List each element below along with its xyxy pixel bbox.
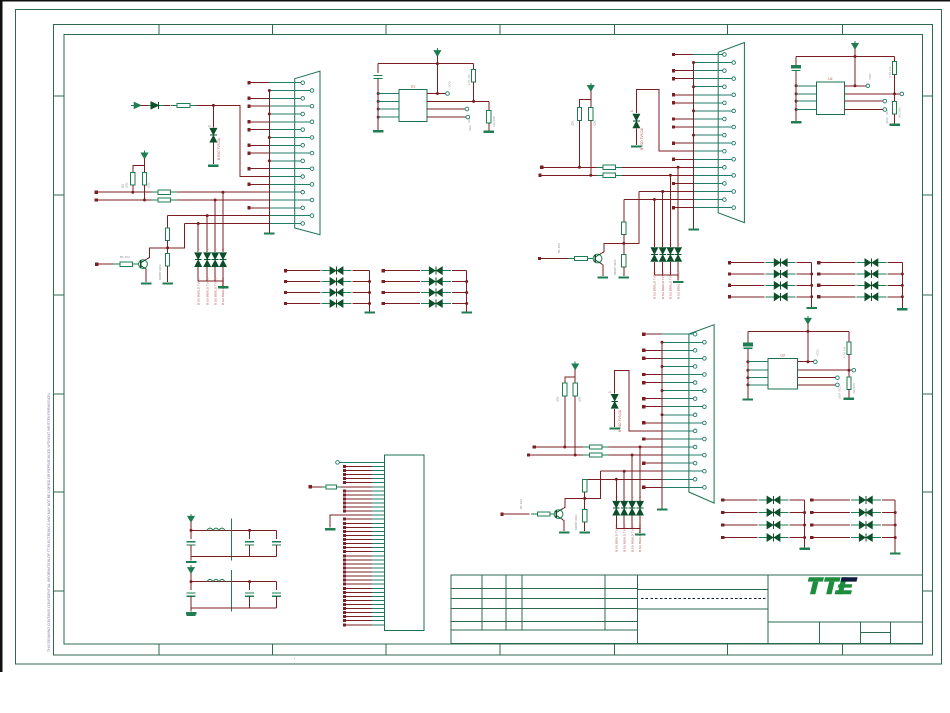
wire R22 to ground (584, 522, 586, 531)
supply arrow F2 V (188, 568, 194, 574)
capacitor F2 C2 (245, 592, 254, 594)
wire U2 R1 to pin2 (894, 74, 896, 94)
border tick right (923, 491, 933, 493)
ground X1 (264, 232, 275, 234)
wire DA2.2 left (383, 281, 420, 283)
node square X2 pin 17 (672, 182, 675, 185)
node square X2 pin 4 (672, 77, 675, 80)
wire J1 pin 9 (346, 494, 372, 496)
wire DA1 rail (369, 271, 371, 312)
junction collector/chain (583, 497, 586, 500)
wire riser to TVS quad (615, 479, 617, 501)
node square J1 pin 6 (343, 481, 346, 484)
diode D1 (148, 104, 164, 106)
wire J1 pin 6 (346, 482, 372, 484)
junction DA5 rail 4 (803, 536, 806, 539)
wire U1 left rail upper (377, 64, 379, 74)
connector J1 pin 15 (372, 518, 384, 520)
diode pair DA2 D3 (421, 292, 451, 294)
wire J1 pin 36 (346, 604, 372, 606)
wire DA2.4 left (383, 303, 420, 305)
connector X3 body (689, 325, 714, 503)
junction U2 left rail (795, 92, 798, 95)
port arrow P1 (134, 102, 141, 108)
pin U2.4 terminal (883, 108, 887, 112)
junction U3 left rail (746, 369, 749, 372)
node square X2 pin 6 (672, 93, 675, 96)
node square X2 pin 20 (672, 206, 675, 209)
wire net stub to X2 pin 1 (674, 54, 694, 56)
border tick left (53, 194, 64, 196)
node square X2 pin 7 (672, 101, 675, 104)
wire J1 pin 40 (346, 620, 372, 622)
TVS diode D4 (204, 253, 210, 259)
wire DA5 rail (804, 500, 806, 548)
node square X2 pin 3 (672, 69, 675, 72)
pin U2.2 terminal (900, 92, 904, 96)
wire net stub to X2 pin 17 (674, 182, 694, 184)
wire U1 right rail upper (473, 64, 475, 70)
junction at R1 output (212, 104, 215, 107)
ground TVS quad (218, 286, 229, 288)
connector J1 pin 20 (372, 539, 384, 541)
wire net stub to X3 pin 14 (644, 438, 662, 440)
border tick bottom (158, 644, 160, 655)
connector J1 pin 34 (372, 595, 384, 597)
svg-text:MMBT3904: MMBT3904 (574, 514, 578, 530)
border tick top (842, 25, 844, 35)
pin U2.3 terminal (883, 99, 887, 103)
connector X2 pin 20 (694, 207, 732, 209)
pin U3.2 terminal (852, 368, 856, 372)
wire U2 left rail upper (795, 57, 797, 66)
ground DA3 (806, 307, 817, 309)
junction DA1 rail 3 (368, 291, 371, 294)
node square J1 pin 2 (343, 465, 346, 468)
junction U3 left rail (746, 383, 749, 386)
wire TVS bottom (206, 267, 208, 281)
svg-text:47K: 47K (556, 395, 560, 402)
node square DA5.2 (721, 511, 724, 514)
connector J1 pin 38 (372, 612, 384, 614)
node square X3 pin 4 (642, 357, 645, 360)
transistor Q3 (554, 510, 563, 519)
wire DA1.3 left (286, 292, 321, 294)
wire IN8 row (529, 454, 663, 456)
wire net stub to X1 pin 12 (249, 168, 269, 170)
resistor R16 (563, 383, 567, 396)
connector X2 pin 10 (694, 126, 732, 128)
ground R22 (579, 531, 590, 533)
pin U2.4 wire (845, 109, 884, 111)
wire DA3 rail (811, 263, 813, 307)
wire DA1.1 left (286, 270, 321, 272)
junction U2 left rail (795, 100, 798, 103)
wire J1 pin1 (340, 461, 373, 463)
wire TVS bottom (669, 262, 671, 275)
terminal circle J1 pin1 (336, 461, 340, 465)
node square DA5.4 (721, 536, 724, 539)
wire DA3.3 right (797, 284, 812, 286)
connector X2 pin 11 (694, 134, 723, 136)
junction wire2/riser (214, 199, 217, 202)
IC U1 body (399, 89, 427, 121)
connector X3 pin 7 (662, 382, 693, 384)
title block line under logo (768, 621, 923, 623)
wire J1 pin 25 (346, 559, 372, 561)
wire riser to TVS quad (206, 216, 208, 253)
wire J1 pin 31 (346, 583, 372, 585)
connector X1 pin 2 (269, 90, 310, 92)
wire J1 pin 39 (346, 616, 372, 618)
diode pair DA2 D2 (421, 281, 451, 283)
wire U3 left rail lower (747, 349, 749, 399)
junction R2/wire1 (131, 191, 134, 194)
connector J1 pin 16 (372, 522, 384, 524)
wire chain top (623, 200, 625, 223)
node square X2 pin 10 (672, 125, 675, 128)
node square DA1.3 (284, 291, 287, 294)
TVS diode D10 (667, 248, 673, 254)
node square IN2 (95, 198, 98, 201)
svg-text:4.7K 1%: 4.7K 1% (888, 66, 892, 78)
wire DA6.4 left (812, 537, 850, 539)
connector X1 pin 11 (269, 160, 301, 162)
wire DA6.2 right (882, 512, 895, 514)
pin stub U3 left (748, 361, 768, 363)
connector J1 pin 37 (372, 608, 384, 610)
connector J1 pin 36 (372, 604, 384, 606)
junction collector/chain (166, 246, 169, 249)
connector X3 pin 19 (662, 478, 693, 480)
connector X2 pin 12 (694, 142, 732, 144)
wire net stub to X1 pin 7 (249, 129, 269, 131)
wire net stub to X2 pin 7 (674, 102, 694, 104)
wire riser to TVS quad (222, 192, 224, 252)
wire DA4.2 right (887, 273, 902, 275)
wire F1 cap2 lower (249, 545, 251, 557)
capacitor U1 C (374, 74, 383, 76)
border tick bottom (272, 644, 274, 655)
border tick right (923, 194, 933, 196)
connector J1 pin 9 (372, 494, 384, 496)
node square X3 pin 7 (642, 381, 645, 384)
wire IN9 to R20 (502, 513, 529, 515)
junction wire1/riser (222, 191, 225, 194)
junction U3 right rail (847, 369, 850, 372)
svg-text:1: 1 (208, 125, 212, 127)
border tick bottom (842, 644, 844, 655)
junction U2 right rail (893, 92, 896, 95)
wire DA6.1 left (812, 499, 850, 501)
node square X3 pin 10 (642, 405, 645, 408)
svg-text:B ESD TVS DA: B ESD TVS DA (217, 137, 221, 160)
connector X2 pin 6 (694, 94, 732, 96)
wire U1 left rail lower (377, 79, 379, 130)
pin U1.1 terminal (446, 92, 450, 96)
ground R15 (619, 276, 630, 278)
wire row3 (168, 215, 270, 217)
border tick left (53, 294, 64, 296)
connector X1 pin 1 (269, 82, 301, 84)
ground U2 left (791, 121, 802, 123)
transistor Q2 (593, 254, 602, 263)
ground TVS quad (635, 533, 646, 535)
svg-text:VDD: VDD (815, 349, 819, 356)
TVS diode D6 (220, 253, 226, 259)
connector X1 pin 17 (269, 207, 301, 209)
wire J1 pin 41 (346, 624, 372, 626)
wire net stub to X1 pin 10 (249, 152, 269, 154)
diode pair DA1 D1 (322, 270, 352, 272)
wire DA1.2 left (286, 281, 321, 283)
resistor R17 (573, 383, 577, 396)
junction R3/wire2 (143, 199, 146, 202)
junction U1 left rail (377, 116, 380, 119)
connector X2 pin 5 (694, 86, 723, 88)
connector J1 pin 7 (372, 486, 384, 488)
connector X2 pin 1 (694, 54, 723, 56)
wire J1 pin 21 (346, 543, 372, 545)
TTE logo (808, 577, 824, 581)
node square J2 input (309, 485, 312, 488)
junction wire1/riser (677, 166, 680, 169)
wire F1 cap3 vert (276, 530, 278, 538)
wire J1 pin 34 (346, 595, 372, 597)
ground F2 (186, 612, 197, 614)
wire J1 pin 5 (346, 478, 372, 480)
wire riser to TVS quad (639, 447, 641, 501)
wire TVS quad common (654, 275, 678, 280)
node square DA2.3 (382, 291, 385, 294)
junction U1 right rail (472, 100, 475, 103)
wire J1 pin14 to ground (330, 515, 372, 527)
junction X2 bus pin 11 (692, 134, 695, 137)
wire DA6.4 right (882, 537, 895, 539)
resistor R1 (171, 104, 197, 106)
wire DA2.4 right (452, 303, 467, 305)
pin U3.1 wire (797, 361, 813, 363)
node square J1 pin 21 (343, 542, 346, 545)
wire J1 pin 23 (346, 551, 372, 553)
wire DA1.3 right (353, 292, 370, 294)
wire J1 pin 18 (346, 530, 372, 532)
wire DA6.1 right (882, 499, 895, 501)
connector J1 pin 30 (372, 579, 384, 581)
junction R9/wire1 (578, 166, 581, 169)
crossing net line F2 (231, 570, 233, 612)
connector X3 pin 15 (662, 446, 693, 448)
wire DA5.4 right (790, 537, 805, 539)
ground Q2 (598, 276, 609, 278)
node square X1 pin 17 (247, 206, 250, 209)
ground U3 right (844, 398, 855, 400)
diode pair DA5 D2 (759, 512, 789, 514)
connector X3 pin 13 (662, 430, 693, 432)
wire TVS bottom (214, 267, 216, 281)
connector X2 pin 17 (694, 182, 723, 184)
node square X1 pin 12 (247, 167, 250, 170)
wire Q3 collector riser (562, 471, 601, 509)
wire DA1.4 right (353, 303, 370, 305)
wire U2 top rail (796, 56, 894, 58)
ground TVS quad (673, 281, 684, 283)
resistor R22 (583, 509, 587, 522)
wire U3 top rail (748, 330, 849, 332)
node square X1 pin 9 (247, 144, 250, 147)
pin U3.4 wire (797, 384, 835, 386)
junction collector/chain (622, 242, 625, 245)
wire F2 cap2 lower (249, 596, 251, 608)
svg-text:SDA: SDA (885, 117, 889, 123)
pin U1.3 terminal (465, 107, 469, 111)
svg-text:NC/10K: NC/10K (898, 107, 902, 118)
wire R6 to Q1 (137, 263, 140, 265)
junction R16/wire1 (563, 446, 566, 449)
pin stub U1 left (378, 116, 399, 118)
ground J1 pin14 (325, 528, 336, 530)
wire U2 left rail lower (795, 71, 797, 121)
connector J1 pin 29 (372, 575, 384, 577)
node square X2 pin 14 (672, 158, 675, 161)
connector X3 pin 8 (662, 390, 703, 392)
wire net stub to X1 pin 6 (249, 121, 269, 123)
wire riser to TVS quad (677, 167, 679, 247)
wire net stub to X1 pin 3 (249, 97, 269, 99)
TVS diode D7 (633, 114, 639, 120)
node square J1 pin 27 (343, 566, 346, 569)
wire net stub to X3 pin 9 (644, 398, 662, 400)
supply arrow V3 (572, 364, 578, 370)
wire net stub to X2 pin 3 (674, 70, 694, 72)
wire row4 (185, 223, 270, 225)
diode pair DA6 D1 (851, 499, 881, 501)
wire R3 to wire2 (144, 185, 146, 200)
wire TVS bottom (653, 262, 655, 275)
resistor U3 R1 (847, 342, 851, 355)
pin U2.2 wire (845, 93, 901, 95)
node square DA1.2 (284, 280, 287, 283)
svg-text:BF 4K2: BF 4K2 (557, 243, 561, 253)
wire R10 to wire2 (590, 120, 592, 175)
border tick left (53, 393, 64, 395)
wire DA6.3 right (882, 524, 895, 526)
node square X3 pin 6 (642, 373, 645, 376)
border tick right (923, 95, 933, 97)
wire X1 ground bus (268, 91, 270, 231)
wire TVS bottom (623, 516, 625, 529)
wire DA6 rail (894, 500, 896, 553)
wire TVS bottom (639, 516, 641, 529)
pin U1.4 terminal (466, 115, 470, 119)
pin stub U3 left (748, 384, 768, 386)
node square DA6.4 (810, 536, 813, 539)
TTE logo navy accent (841, 577, 858, 581)
TVS diode D16 (637, 501, 643, 507)
wire net stub to X2 pin 12 (674, 142, 694, 144)
diode pair DA5 D1 (759, 499, 789, 501)
connector J1 pin 12 (372, 506, 384, 508)
node square J1 pin 28 (343, 571, 346, 574)
junction U2 left rail (795, 84, 798, 87)
TVS diode D8 (651, 248, 657, 254)
pin U1.3 wire (427, 108, 465, 110)
pin U1.4 wire (427, 116, 466, 118)
connector X3 pin 4 (662, 357, 703, 359)
ground R8 (162, 282, 173, 284)
wire F2 bottom (191, 607, 277, 609)
supply arrow F1 V (188, 516, 194, 522)
pin U2.1 terminal (866, 84, 870, 88)
junction DA5 rail 2 (803, 511, 806, 514)
wire J1 pin 29 (346, 575, 372, 577)
wire J1 pin 30 (346, 579, 372, 581)
diode pair DA6 D2 (851, 512, 881, 514)
resistor R10 (589, 108, 593, 121)
title block bottom-right cell verticals (819, 622, 821, 644)
wire Q2 collector riser (601, 192, 639, 254)
wire Q1 emitter (145, 269, 147, 282)
border tick right (923, 294, 933, 296)
node square DA6.3 (810, 523, 813, 526)
junction DA4 rail 3 (901, 284, 904, 287)
node square X1 pin 14 (247, 183, 250, 186)
wire net stub to X1 pin 14 (249, 183, 269, 185)
wire D7 top route to X2 pin 13 (636, 89, 693, 151)
wire J1 pin 17 (346, 526, 372, 528)
node square X1 pin 3 (247, 97, 250, 100)
border tick top (385, 25, 387, 35)
ground U1 left (373, 130, 384, 132)
wire net stub to X1 pin 17 (249, 207, 269, 209)
wire R14 to R15 (623, 235, 625, 255)
wire J1 pin 35 (346, 599, 372, 601)
resistor R18 (583, 446, 609, 448)
wire net stub to X1 pin 4 (249, 105, 269, 107)
junction U1 vcc/pin1 (436, 92, 439, 95)
wire branch to R16 (565, 377, 575, 383)
junction F2 left (190, 580, 193, 583)
connector X3 pin 3 (662, 349, 693, 351)
node square X3 pin 20 (642, 486, 645, 489)
wire D7 to ground (635, 129, 637, 146)
connector X2 pin 14 (694, 158, 732, 160)
node square IN1 (95, 191, 98, 194)
connector X2 pin 7 (694, 102, 723, 104)
wire J1 pin 15 (346, 518, 372, 520)
border tick bottom (385, 644, 387, 655)
wire F1 cap1 vert (190, 530, 192, 538)
window left edge line (0, 0, 3, 672)
wire J1 pin 28 (346, 571, 372, 573)
connector J1 pin 27 (372, 567, 384, 569)
wire J1 pin 19 (346, 534, 372, 536)
node square J1 pin 37 (343, 607, 346, 610)
wire P1 to D1 (141, 104, 148, 106)
resistor U2 R2 (892, 102, 896, 115)
node square J1 pin 31 (343, 583, 346, 586)
node square J1 pin 22 (343, 546, 346, 549)
ground for D2 (208, 165, 219, 167)
connector J1 pin 1 (372, 461, 384, 463)
node square J1 pin 39 (343, 615, 346, 618)
wire F1 top (191, 529, 277, 531)
node square J1 pin 34 (343, 595, 346, 598)
connector X3 pin 9 (662, 398, 693, 400)
svg-text:1: 1 (608, 391, 612, 393)
wire net stub to X3 pin 3 (644, 349, 662, 351)
wire F2 cap2 vert (249, 582, 251, 590)
